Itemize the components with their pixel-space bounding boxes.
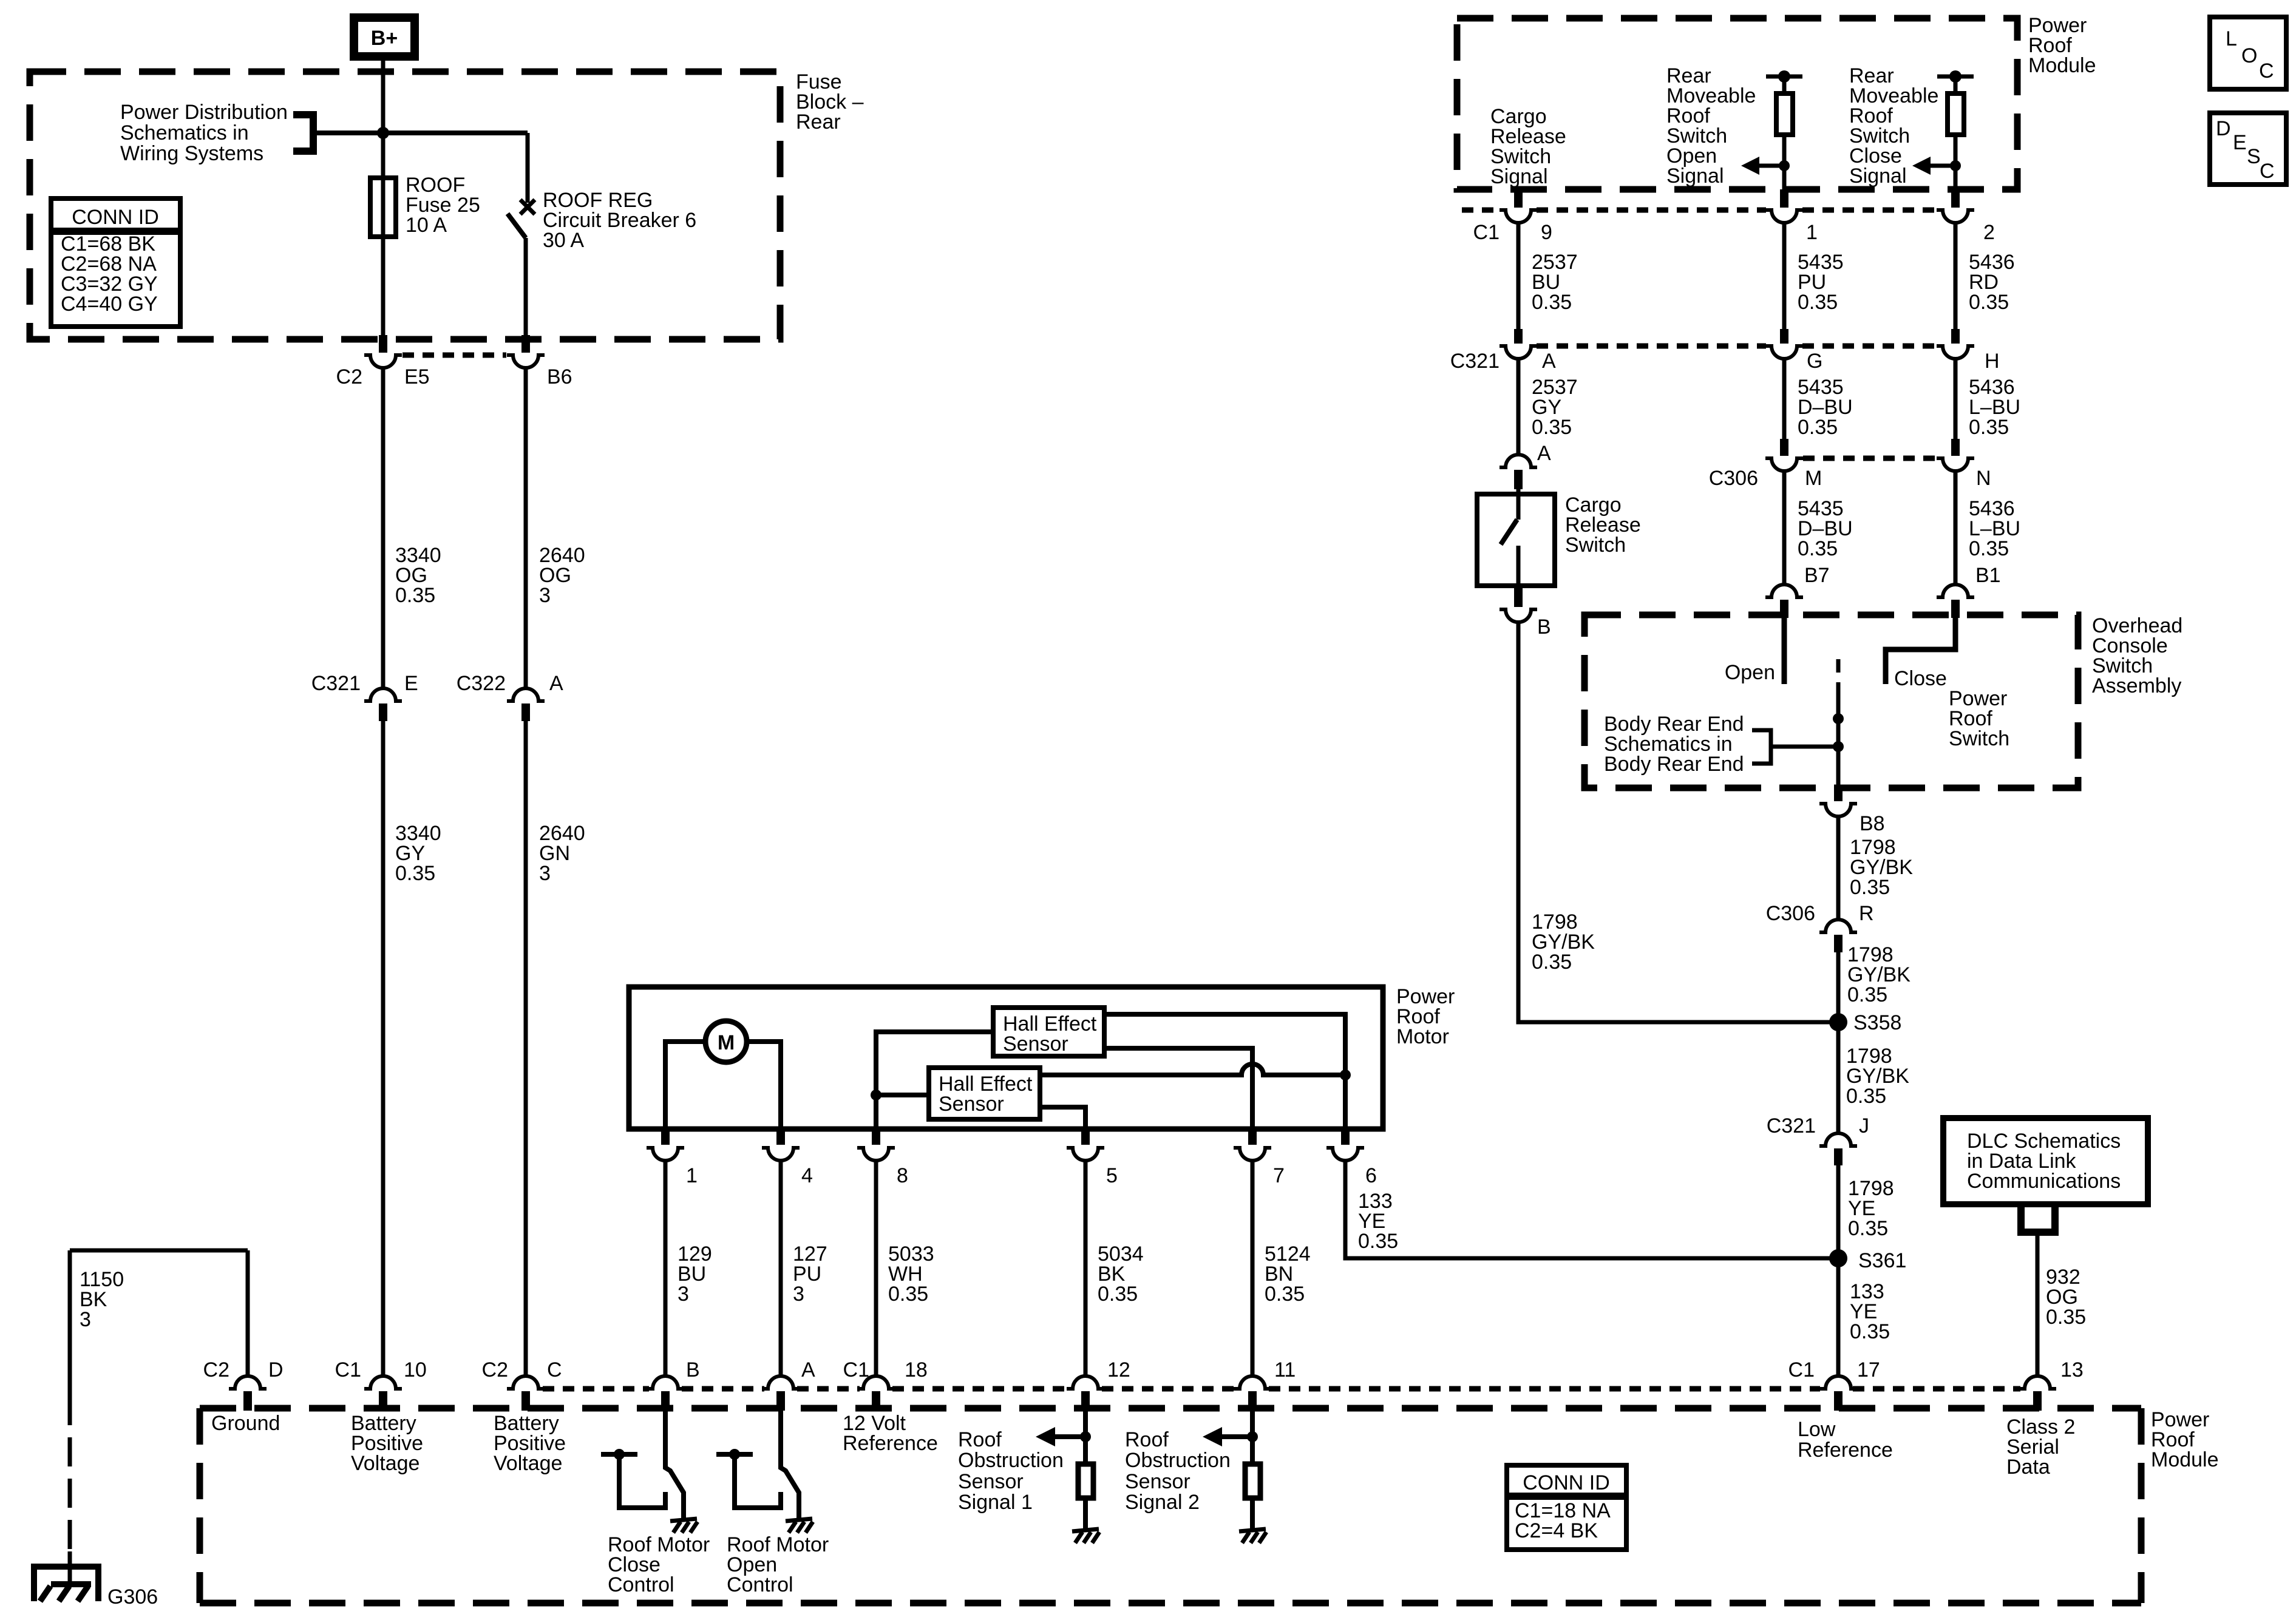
body rear end reference bracket	[1752, 730, 1771, 764]
wire bracket to pole	[1771, 745, 1838, 749]
wire sensor2 top lead with crossover hop	[1040, 1064, 1345, 1075]
svg-text:10 A: 10 A	[406, 214, 447, 237]
label 5436 RD 0.35	[1969, 251, 2015, 314]
hall effect sensor 1 box	[993, 1008, 1104, 1056]
connector overhead pin B7	[1765, 564, 1830, 618]
svg-text:Module: Module	[2151, 1448, 2219, 1471]
connector C306 pin M	[1709, 439, 1822, 490]
svg-text:8: 8	[897, 1164, 908, 1187]
LOC box	[2210, 17, 2286, 89]
svg-text:C: C	[547, 1358, 562, 1381]
dotted connector row C1 top	[1462, 208, 1937, 213]
label Low Reference	[1798, 1418, 1893, 1462]
svg-text:S358: S358	[1853, 1011, 1901, 1034]
svg-text:3: 3	[80, 1308, 91, 1331]
label Roof Motor Open Control	[727, 1533, 829, 1596]
svg-text:18: 18	[905, 1358, 928, 1381]
svg-text:12: 12	[1107, 1358, 1130, 1381]
svg-text:R: R	[1859, 902, 1874, 925]
wire 5124 BN pin7 to 11	[1251, 1161, 1255, 1375]
connector C1 pin 1	[1765, 189, 1818, 244]
svg-text:Signal: Signal	[1490, 165, 1548, 188]
svg-text:Assembly: Assembly	[2092, 674, 2181, 697]
svg-text:0.35: 0.35	[1358, 1230, 1398, 1253]
svg-text:J: J	[1859, 1114, 1869, 1137]
wire 1798 GY/BK middle	[1836, 952, 1841, 1022]
svg-text:E: E	[404, 672, 418, 695]
svg-text:13: 13	[2060, 1358, 2084, 1381]
wire 5435 D-BU upper	[1782, 359, 1787, 439]
connector C2 pin D	[203, 1358, 284, 1411]
svg-text:0.35: 0.35	[1098, 1283, 1138, 1306]
svg-text:0.35: 0.35	[1847, 983, 1887, 1006]
reference bracket to Power Distribution	[293, 115, 313, 151]
svg-text:S361: S361	[1858, 1249, 1906, 1272]
svg-text:Sensor: Sensor	[958, 1470, 1024, 1493]
label ROOF REG Circuit Breaker 6 30 A	[543, 189, 696, 252]
power roof switch pole	[1833, 659, 1844, 787]
svg-text:0.35: 0.35	[888, 1283, 928, 1306]
connector C321 pin A	[1450, 329, 1556, 373]
connector C321 pin H	[1937, 329, 2000, 373]
svg-text:Power Distribution: Power Distribution	[120, 101, 288, 124]
svg-text:Obstruction: Obstruction	[958, 1449, 1064, 1472]
wire 5033 WH pin8 to 18	[874, 1161, 878, 1375]
battery positive B+ box	[354, 18, 415, 56]
svg-text:2: 2	[1983, 221, 1995, 244]
label 133 YE 0.35 lower	[1850, 1280, 1890, 1343]
label 12 Volt Reference	[843, 1412, 938, 1455]
circuit breaker CB6 blade	[508, 214, 526, 238]
dotted connector row bottom module	[543, 1386, 2020, 1392]
label 2640 GN 3	[539, 822, 585, 885]
label 5033 WH 0.35	[888, 1242, 934, 1306]
label Body Rear End Schematics	[1604, 713, 1744, 776]
splice S358	[1829, 1011, 1901, 1034]
wire sensor2 left lead	[876, 1093, 929, 1097]
label Roof Motor Close Control	[608, 1533, 710, 1596]
svg-text:Rear: Rear	[796, 110, 841, 134]
label Class 2 Serial Data	[2006, 1415, 2075, 1479]
wire 133 YE to C1 17	[1836, 1258, 1841, 1375]
wire 1150 BK dashed section	[68, 1396, 72, 1551]
svg-text:B8: B8	[1860, 812, 1885, 835]
label 5435 D-BU 0.35 upper	[1798, 376, 1853, 439]
svg-text:11: 11	[1274, 1358, 1296, 1381]
wire cargo B to splice S358	[1518, 622, 1838, 1022]
svg-text:C306: C306	[1766, 902, 1815, 925]
svg-text:E5: E5	[404, 365, 430, 388]
label 1798 GY/BK 0.35 upper	[1850, 836, 1913, 899]
svg-text:Roof: Roof	[1125, 1428, 1169, 1451]
label Fuse Block Rear	[796, 70, 864, 134]
svg-text:G306: G306	[107, 1585, 158, 1609]
svg-text:Schematics in: Schematics in	[120, 121, 249, 144]
wire 5436 L-BU upper	[1954, 359, 1958, 439]
label 3340 GY 0.35	[395, 822, 441, 885]
connector C1 pin 12	[1067, 1358, 1130, 1411]
svg-text:C2: C2	[482, 1358, 508, 1381]
connector C306 pin R	[1766, 902, 1874, 952]
fuse block rear dashed box	[30, 72, 780, 339]
CONN ID table bottom	[1507, 1465, 1626, 1550]
wire 5436 L-BU lower	[1954, 471, 1958, 583]
power roof motor box	[629, 987, 1383, 1129]
label Cargo Release Switch Signal	[1490, 105, 1566, 188]
hall effect sensor 2 box	[929, 1068, 1040, 1119]
svg-text:C1: C1	[1473, 221, 1500, 244]
svg-text:0.35: 0.35	[2046, 1306, 2086, 1329]
label 1798 GY/BK 0.35 cargo	[1532, 910, 1595, 974]
connector overhead pin B8	[1819, 785, 1885, 835]
label Battery Positive Voltage 1	[351, 1412, 423, 1475]
connector C2 pin E5	[336, 335, 430, 388]
wire to circuit breaker	[526, 133, 530, 203]
label 1798 GY/BK 0.35 lower	[1846, 1045, 1909, 1108]
svg-text:0.35: 0.35	[1798, 291, 1838, 314]
wire 1798 GY/BK upper	[1836, 816, 1841, 918]
svg-text:CONN ID: CONN ID	[72, 206, 159, 229]
ground roof motor open	[786, 1519, 813, 1533]
junction roof motor close driver	[614, 1449, 625, 1460]
svg-text:A: A	[549, 672, 563, 695]
svg-text:C306: C306	[1709, 467, 1758, 490]
svg-text:Voltage: Voltage	[351, 1452, 419, 1475]
svg-text:C1: C1	[1788, 1358, 1815, 1381]
svg-text:M: M	[718, 1031, 735, 1054]
connector C1 pin 10	[335, 1358, 427, 1411]
junction on pin 6 wire	[1340, 1070, 1351, 1080]
wire 5435 PU	[1782, 223, 1787, 331]
svg-text:Low: Low	[1798, 1418, 1836, 1441]
svg-text:A: A	[1542, 350, 1556, 373]
DLC bracket	[2021, 1204, 2055, 1232]
dotted connector row C321	[1537, 344, 1937, 349]
svg-text:L: L	[2226, 27, 2237, 50]
svg-text:D: D	[2216, 117, 2231, 140]
connector C1 pin 9	[1473, 189, 1552, 244]
svg-text:E: E	[2233, 131, 2247, 154]
svg-text:17: 17	[1857, 1358, 1880, 1381]
ground G306	[34, 1567, 98, 1601]
svg-text:CONN ID: CONN ID	[1523, 1471, 1610, 1494]
motor connector pin 7	[1234, 1130, 1285, 1187]
CONN ID table fuse block	[51, 198, 180, 327]
wire from B+ down	[381, 61, 385, 133]
label Battery Positive Voltage 2	[494, 1412, 566, 1475]
svg-text:0.35: 0.35	[1798, 416, 1838, 439]
svg-text:Ground: Ground	[211, 1412, 280, 1435]
svg-text:9: 9	[1541, 221, 1552, 244]
label 5124 BN 0.35	[1265, 1242, 1311, 1306]
svg-text:C321: C321	[1767, 1114, 1816, 1137]
wire open contact	[1782, 618, 1787, 684]
wire into ground	[68, 1551, 72, 1585]
power roof module bottom dashed box	[200, 1408, 2141, 1603]
label 5435 PU 0.35	[1798, 251, 1844, 314]
connector C1 pin 18	[857, 1358, 928, 1411]
label Rear Moveable Roof Switch Close Signal	[1849, 64, 1938, 188]
connector cargo switch pin B	[1500, 586, 1551, 639]
label Roof Obstruction Sensor Signal 2	[1125, 1428, 1231, 1514]
svg-text:3: 3	[793, 1283, 804, 1306]
svg-text:30 A: 30 A	[543, 229, 584, 252]
svg-text:B6: B6	[547, 365, 572, 388]
label 3340 OG 0.35	[395, 544, 441, 607]
svg-text:0.35: 0.35	[1969, 416, 2009, 439]
svg-text:C321: C321	[1450, 350, 1500, 373]
svg-text:0.35: 0.35	[1532, 291, 1572, 314]
svg-text:G: G	[1807, 350, 1822, 373]
label 5436 L-BU 0.35 lower	[1969, 497, 2020, 560]
svg-text:C4=40 GY: C4=40 GY	[61, 293, 158, 316]
wire 1798 GY/BK lower	[1836, 1022, 1841, 1132]
cargo release switch	[1477, 489, 1555, 588]
svg-text:S: S	[2247, 145, 2261, 168]
label 2537 GY 0.35	[1532, 376, 1578, 439]
label Power Roof Motor	[1396, 985, 1455, 1048]
svg-text:C2=4 BK: C2=4 BK	[1515, 1519, 1598, 1542]
motor connector pin 8	[857, 1130, 908, 1187]
label 2537 BU 0.35	[1532, 251, 1578, 314]
wire 2640 OG	[524, 368, 528, 687]
junction node on B+ feed	[377, 127, 389, 139]
wire 2640 GN	[524, 721, 528, 1375]
svg-text:Roof: Roof	[958, 1428, 1002, 1451]
svg-text:0.35: 0.35	[1846, 1085, 1886, 1108]
connector C321 pin G	[1765, 329, 1822, 373]
svg-text:Switch: Switch	[1949, 727, 2009, 750]
svg-text:0.35: 0.35	[1265, 1283, 1305, 1306]
wire breaker to connector B6	[524, 238, 528, 336]
svg-text:C: C	[2259, 59, 2274, 83]
label 932 OG 0.35	[2046, 1266, 2086, 1329]
svg-text:0.35: 0.35	[1969, 291, 2009, 314]
svg-text:0.35: 0.35	[1850, 1320, 1890, 1343]
label 5034 BK 0.35	[1098, 1242, 1144, 1306]
label 1150 BK 3	[80, 1268, 124, 1331]
svg-text:1: 1	[1806, 221, 1818, 244]
svg-text:O: O	[2241, 44, 2257, 67]
wire junction down to fuse	[381, 133, 385, 336]
motor M1	[705, 1021, 747, 1062]
label 2640 OG 3	[539, 544, 585, 607]
svg-text:B: B	[686, 1358, 700, 1381]
wire 2537 BU	[1517, 223, 1521, 331]
rear moveable roof switch open pullup resistor	[1766, 70, 1802, 189]
wire 2537 GY	[1517, 359, 1521, 453]
svg-text:M: M	[1805, 467, 1822, 490]
svg-text:Communications: Communications	[1967, 1170, 2121, 1193]
svg-text:Obstruction: Obstruction	[1125, 1449, 1231, 1472]
circuit breaker CB6 contact X	[520, 200, 535, 214]
svg-text:1: 1	[686, 1164, 698, 1187]
DESC box	[2210, 113, 2286, 185]
connector C1 pin 13	[2019, 1358, 2084, 1411]
DLC schematics box	[1943, 1118, 2148, 1204]
svg-text:N: N	[1976, 467, 1991, 490]
motor connector pin 4	[762, 1130, 813, 1187]
svg-text:7: 7	[1273, 1164, 1285, 1187]
dotted connector row C306	[1803, 456, 1937, 461]
svg-text:0.35: 0.35	[1848, 1217, 1888, 1240]
svg-text:Control: Control	[608, 1573, 674, 1596]
close signal arrow	[1912, 157, 1961, 175]
svg-text:B1: B1	[1975, 564, 2001, 587]
connector C1 pin 11	[1234, 1358, 1296, 1411]
svg-text:0.35: 0.35	[1850, 876, 1890, 899]
splice S361	[1829, 1249, 1906, 1272]
svg-text:C: C	[2260, 160, 2275, 183]
svg-text:A: A	[1537, 442, 1551, 465]
wire sensor2 lower lead to pin 5	[1040, 1107, 1085, 1129]
label 1798 GY/BK 0.35 middle	[1847, 943, 1911, 1006]
svg-text:Open: Open	[1725, 661, 1775, 684]
svg-text:Data: Data	[2006, 1456, 2050, 1479]
svg-text:C2: C2	[336, 365, 362, 388]
svg-text:Voltage: Voltage	[494, 1452, 562, 1475]
svg-text:C322: C322	[457, 672, 506, 695]
label 1798 YE 0.35	[1848, 1177, 1894, 1240]
wire 1150 BK ground run	[70, 1250, 248, 1396]
label 127 PU 3	[793, 1242, 827, 1306]
svg-text:5: 5	[1106, 1164, 1118, 1187]
svg-text:3: 3	[678, 1283, 689, 1306]
svg-text:C2: C2	[203, 1358, 229, 1381]
svg-text:B+: B+	[371, 27, 398, 50]
connector C1 pin B	[647, 1358, 700, 1411]
label Overhead Console Switch Assembly	[2092, 614, 2182, 697]
wire 5436 RD	[1954, 223, 1958, 331]
label ROOF Fuse 25 10 A	[406, 174, 480, 237]
svg-text:0.35: 0.35	[1532, 951, 1572, 974]
wire sensor1 top lead to pin 6	[1104, 1014, 1345, 1129]
label Power Roof Module bottom	[2151, 1408, 2219, 1471]
fuse ROOF Fuse 25 10A	[370, 178, 396, 237]
svg-text:Reference: Reference	[1798, 1439, 1893, 1462]
wire 5034 BK pin5 to 12	[1084, 1161, 1088, 1375]
svg-text:Module: Module	[2028, 54, 2096, 77]
connector C321 pin E	[311, 672, 418, 721]
connector C2 pin C	[482, 1358, 562, 1411]
wire motor right lead	[747, 1042, 781, 1129]
wire 932 OG	[2036, 1232, 2040, 1375]
open signal arrow	[1741, 157, 1790, 175]
svg-text:Control: Control	[727, 1573, 793, 1596]
roof obstruction sensor 2 branch	[1203, 1411, 1266, 1543]
label 129 BU 3	[678, 1242, 712, 1306]
label Power Roof Module top	[2028, 14, 2096, 77]
svg-text:Sensor: Sensor	[1003, 1032, 1068, 1056]
roof obstruction sensor 1 branch	[1036, 1411, 1099, 1543]
svg-text:Signal 2: Signal 2	[1125, 1491, 1200, 1514]
label 5435 D-BU 0.35 lower	[1798, 497, 1853, 560]
power roof module top dashed box	[1457, 18, 2017, 189]
svg-text:0.35: 0.35	[1798, 537, 1838, 560]
svg-text:Sensor: Sensor	[1125, 1470, 1190, 1493]
connector cargo switch pin A	[1500, 442, 1551, 489]
svg-text:H: H	[1985, 350, 2000, 373]
svg-text:Sensor: Sensor	[939, 1093, 1004, 1116]
wire sensor1 left lead to pin 8	[876, 1032, 993, 1129]
svg-text:0.35: 0.35	[395, 862, 435, 885]
svg-text:3: 3	[539, 584, 551, 607]
label Cargo Release Switch	[1565, 493, 1641, 557]
label Rear Moveable Roof Switch Open Signal	[1666, 64, 1756, 188]
svg-text:C1: C1	[843, 1358, 869, 1381]
roof motor open control switch	[716, 1411, 799, 1519]
connector C1 pin 17	[1788, 1358, 1880, 1411]
svg-text:6: 6	[1365, 1164, 1377, 1187]
svg-text:Reference: Reference	[843, 1432, 938, 1455]
svg-text:Close: Close	[1894, 667, 1947, 690]
ground roof motor close	[670, 1519, 698, 1533]
connector C1 pin 2	[1937, 189, 1995, 244]
svg-text:3: 3	[539, 862, 551, 885]
svg-text:Motor: Motor	[1396, 1025, 1449, 1048]
wire 5435 D-BU lower	[1782, 471, 1787, 583]
connector C321 pin J	[1767, 1114, 1869, 1165]
svg-text:Body Rear End: Body Rear End	[1604, 753, 1744, 776]
connector pin B6	[507, 335, 572, 388]
svg-text:10: 10	[404, 1358, 427, 1381]
junction roof motor open driver	[729, 1449, 740, 1460]
label 5436 L-BU 0.35 upper	[1969, 376, 2020, 439]
roof motor close control switch	[601, 1411, 684, 1519]
svg-text:C1: C1	[335, 1358, 361, 1381]
connector C1 pin A	[762, 1358, 869, 1411]
svg-text:D: D	[268, 1358, 284, 1381]
svg-text:Signal: Signal	[1849, 164, 1907, 188]
label 133 YE 0.35 at pin6	[1358, 1190, 1398, 1253]
wire motor left lead	[665, 1042, 705, 1129]
motor connector pin 5	[1067, 1130, 1118, 1187]
wire 3340 OG	[381, 368, 385, 687]
wire 129 BU pin1 to B	[664, 1161, 668, 1375]
label Roof Obstruction Sensor Signal 1	[958, 1428, 1064, 1514]
svg-text:0.35: 0.35	[1969, 537, 2009, 560]
svg-text:B7: B7	[1804, 564, 1830, 587]
label Power Distribution Schematics in Wiring Systems	[120, 101, 288, 165]
overhead console switch assembly dashed box	[1584, 615, 2078, 788]
svg-text:Switch: Switch	[1565, 534, 1626, 557]
svg-text:B: B	[1537, 615, 1551, 639]
connector C306 pin N	[1937, 439, 1991, 490]
svg-text:A: A	[801, 1358, 815, 1381]
motor connector pin 1	[647, 1130, 698, 1187]
label Power Roof Switch	[1949, 687, 2009, 750]
wire bus from bracket to breaker branch	[313, 131, 528, 135]
rear moveable roof switch close pullup resistor	[1937, 70, 1974, 189]
connector overhead pin B1	[1937, 564, 2001, 618]
dotted connector row C2	[402, 353, 506, 358]
wire 133 YE pin6 to S361	[1345, 1161, 1838, 1258]
svg-text:4: 4	[801, 1164, 813, 1187]
motor connector pin 6	[1326, 1130, 1377, 1187]
wire close contact	[1886, 618, 1955, 684]
wire sensor1 lower lead to pin 7	[1104, 1048, 1252, 1129]
wire 3340 GY	[381, 721, 385, 1375]
svg-text:0.35: 0.35	[1532, 416, 1572, 439]
svg-text:Signal: Signal	[1666, 164, 1724, 188]
connector C322 pin A	[457, 672, 563, 721]
svg-text:Wiring Systems: Wiring Systems	[120, 142, 263, 165]
svg-text:0.35: 0.35	[395, 584, 435, 607]
svg-text:C321: C321	[311, 672, 361, 695]
svg-text:Signal 1: Signal 1	[958, 1491, 1033, 1514]
wire 1798 YE	[1836, 1165, 1841, 1258]
wire 127 PU pin4 to A	[779, 1161, 783, 1375]
